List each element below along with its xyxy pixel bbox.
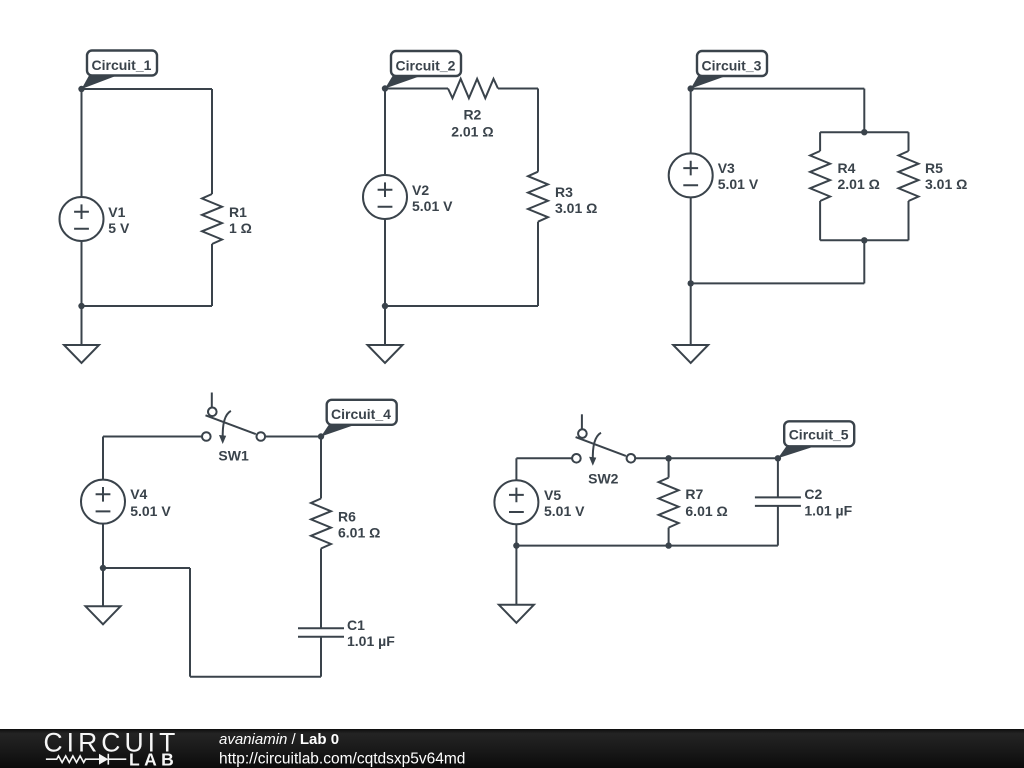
resistor R6 xyxy=(311,499,331,549)
voltage source V2 xyxy=(363,175,407,219)
svg-text:5.01 V: 5.01 V xyxy=(412,198,453,214)
wire (right rail above R3) xyxy=(537,89,539,172)
wire (left rail above V1) xyxy=(81,89,83,197)
wire (up mid rail) xyxy=(189,568,191,677)
voltage source V4 xyxy=(81,480,125,524)
node (ground junction, circuit 4) xyxy=(100,565,106,571)
svg-text:R4: R4 xyxy=(838,160,856,176)
wire (left rail above V5) xyxy=(515,458,517,480)
switch SW2 xyxy=(572,414,635,466)
svg-text:5.01 V: 5.01 V xyxy=(718,176,759,192)
wire (left rail below V2) xyxy=(384,219,386,306)
wire (R4 bottom lead) xyxy=(819,201,821,240)
wire (R5 top lead) xyxy=(908,132,910,151)
wire (left rail above V3) xyxy=(690,89,692,154)
resistor R5 xyxy=(899,151,919,201)
node A (top-left junction, Circuit_1) xyxy=(78,86,84,92)
wire (SW1 to node) xyxy=(265,436,321,438)
svg-text:V5: V5 xyxy=(544,487,561,503)
wire (R2 to top-right corner) xyxy=(498,88,538,90)
node (R7 top junction) xyxy=(665,455,671,461)
footer bar xyxy=(0,729,1024,768)
svg-text:R5: R5 xyxy=(925,160,943,176)
wire (top run to parallel pair) xyxy=(691,88,865,90)
svg-text:R2: R2 xyxy=(463,107,481,123)
svg-text:R7: R7 xyxy=(685,486,703,502)
ground (circuit 4) xyxy=(86,606,121,624)
svg-text:2.01 Ω: 2.01 Ω xyxy=(838,176,880,192)
wire (bottom run) xyxy=(190,676,321,678)
wire (down to parallel top rail) xyxy=(863,89,865,133)
wire (parallel bottom rail) xyxy=(820,239,908,241)
wire (R5 bottom lead) xyxy=(908,201,910,240)
ground (circuit 5) xyxy=(499,605,534,623)
svg-text:6.01 Ω: 6.01 Ω xyxy=(338,525,380,541)
svg-text:R6: R6 xyxy=(338,509,356,525)
wire (R6 to C1) xyxy=(320,549,322,629)
svg-text:1.01 µF: 1.01 µF xyxy=(347,633,395,649)
voltage source V1 xyxy=(60,197,104,241)
wire (R7 top lead) xyxy=(668,458,670,477)
svg-text:Circuit_5: Circuit_5 xyxy=(789,427,849,443)
node (top-left junction, Circuit_2) xyxy=(382,85,388,91)
node (parallel bottom junction) xyxy=(861,237,867,243)
wire (bottom, ground net) xyxy=(82,305,213,307)
svg-text:6.01 Ω: 6.01 Ω xyxy=(685,503,727,519)
svg-text:Circuit_4: Circuit_4 xyxy=(331,406,391,422)
Circuit_3 label callout xyxy=(691,51,767,89)
ground (circuit 3) xyxy=(673,345,708,363)
wire (top, node to R1) xyxy=(82,88,213,90)
svg-text:5 V: 5 V xyxy=(108,220,130,236)
wire (left rail above V2) xyxy=(384,89,386,176)
CircuitLab logo wordmark xyxy=(44,727,180,768)
node (ground junction, circuit 5) xyxy=(513,542,519,548)
svg-text:avaniamin / Lab 0: avaniamin / Lab 0 xyxy=(219,731,339,748)
capacitor C2 xyxy=(755,497,801,506)
wire (bottom, ground net) xyxy=(385,305,538,307)
node (bottom-left junction) xyxy=(78,303,84,309)
wire (left rail below V1) xyxy=(81,241,83,306)
wire (down from parallel pair) xyxy=(863,240,865,283)
resistor R3 xyxy=(528,172,548,222)
svg-text:R1: R1 xyxy=(229,204,247,220)
svg-text:Circuit_1: Circuit_1 xyxy=(92,57,152,73)
node (bottom-left junction) xyxy=(382,303,388,309)
wire (R4 top lead) xyxy=(819,132,821,151)
resistor R2 xyxy=(448,79,498,98)
svg-text:SW1: SW1 xyxy=(218,447,249,463)
svg-text:C2: C2 xyxy=(804,486,822,502)
node (Circuit_5 flag junction) xyxy=(775,455,781,461)
voltage source V3 xyxy=(669,153,713,197)
wire (ground stub) xyxy=(515,546,517,605)
wire (C2 bottom lead) xyxy=(777,506,779,546)
wire (left rail below V3) xyxy=(690,197,692,283)
wire (node to R2) xyxy=(385,88,448,90)
svg-text:R3: R3 xyxy=(555,184,573,200)
svg-text:V1: V1 xyxy=(108,204,125,220)
Circuit_1 label callout xyxy=(82,51,158,90)
wire (right rail below R3) xyxy=(537,222,539,306)
svg-text:V3: V3 xyxy=(718,160,735,176)
wire (left rail below V4) xyxy=(102,524,104,568)
wire (R7 bottom lead) xyxy=(668,528,670,546)
wire (ground stub) xyxy=(690,283,692,345)
svg-text:5.01 V: 5.01 V xyxy=(544,503,585,519)
Circuit_2 label callout xyxy=(385,51,461,89)
svg-text:3.01 Ω: 3.01 Ω xyxy=(555,200,597,216)
wire (left rail below V5) xyxy=(515,524,517,545)
wire (V5 to SW2) xyxy=(516,457,572,459)
node (bottom-left junction) xyxy=(688,280,694,286)
resistor R7 xyxy=(659,478,679,528)
wire (ground stub) xyxy=(81,306,83,345)
svg-text:http://circuitlab.com/cqtdsxp5: http://circuitlab.com/cqtdsxp5v64md xyxy=(219,750,465,767)
capacitor C1 xyxy=(298,628,344,637)
wire (ground stub) xyxy=(102,568,104,606)
wire (ground stub) xyxy=(384,306,386,345)
svg-text:3.01 Ω: 3.01 Ω xyxy=(925,176,967,192)
resistor R1 xyxy=(202,194,222,244)
svg-text:Circuit_2: Circuit_2 xyxy=(396,58,456,74)
wire (SW2 to R7 junction) xyxy=(635,457,778,459)
CircuitLab logo resistor-diode glyph xyxy=(46,754,126,765)
voltage source V5 xyxy=(494,480,538,524)
node (parallel top junction) xyxy=(861,129,867,135)
Circuit_4 label callout xyxy=(321,400,397,437)
wire (V4 to SW1) xyxy=(103,436,202,438)
wire (C2 top lead) xyxy=(777,458,779,497)
wire (C1 bottom lead) xyxy=(320,637,322,677)
svg-text:V2: V2 xyxy=(412,182,429,198)
ground (circuit 1) xyxy=(64,345,99,363)
wire (left rail above V4) xyxy=(102,437,104,480)
svg-text:1 Ω: 1 Ω xyxy=(229,220,252,236)
svg-text:C1: C1 xyxy=(347,617,365,633)
svg-text:Circuit_3: Circuit_3 xyxy=(702,58,762,74)
svg-text:2.01 Ω: 2.01 Ω xyxy=(451,123,493,139)
svg-text:1.01 µF: 1.01 µF xyxy=(804,502,852,518)
wire (node to mid rail) xyxy=(103,567,190,569)
svg-text:5.01 V: 5.01 V xyxy=(130,503,171,519)
node (R7 bottom junction) xyxy=(665,542,671,548)
wire (right rail above R6) xyxy=(320,437,322,499)
wire (parallel top rail) xyxy=(820,131,908,133)
Circuit_5 label callout xyxy=(778,421,854,458)
ground (circuit 2) xyxy=(368,345,403,363)
resistor R4 xyxy=(810,151,830,201)
switch SW1 xyxy=(202,393,265,445)
wire (right rail below R1) xyxy=(211,244,213,306)
node (top-left junction, Circuit_3) xyxy=(688,85,694,91)
wire (bottom, ground net) xyxy=(516,545,778,547)
wire (bottom, ground net) xyxy=(691,282,865,284)
node (Circuit_4 flag junction) xyxy=(318,433,324,439)
svg-text:LAB: LAB xyxy=(129,750,178,768)
svg-text:V4: V4 xyxy=(130,486,147,502)
svg-text:SW2: SW2 xyxy=(588,470,619,486)
wire (right rail above R1) xyxy=(211,89,213,194)
